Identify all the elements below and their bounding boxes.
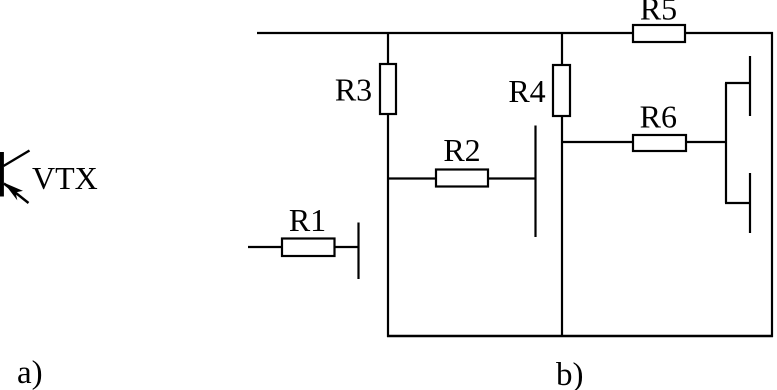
resistor R3 bbox=[380, 64, 396, 114]
wire R2 branch left lead bbox=[387, 177, 436, 179]
wire middle vertical upper segment bbox=[561, 32, 563, 65]
wire R6 branch right lead bbox=[686, 141, 726, 143]
svg-text:VTX: VTX bbox=[32, 160, 98, 196]
transistor gate plate at R2 bbox=[534, 126, 536, 238]
transistor drain plate right MOS bbox=[749, 56, 751, 116]
svg-text:a): a) bbox=[17, 355, 43, 390]
wire R1 branch right lead bbox=[335, 246, 359, 248]
svg-text:R3: R3 bbox=[335, 72, 372, 108]
svg-text:R2: R2 bbox=[443, 132, 480, 168]
wire R2 branch right lead bbox=[488, 177, 536, 179]
svg-text:R1: R1 bbox=[289, 202, 326, 238]
transistor top arm right MOS bbox=[725, 82, 750, 84]
wire left vertical upper segment bbox=[387, 32, 389, 64]
transistor bottom arm right MOS bbox=[725, 202, 750, 204]
transistor VTX bbox=[0, 151, 30, 204]
transistor gate bar right MOS bbox=[725, 83, 727, 203]
wire left vertical lower segment bbox=[387, 114, 389, 337]
resistor R6 bbox=[633, 135, 686, 151]
svg-text:R4: R4 bbox=[508, 73, 545, 109]
transistor gate plate at R1 bbox=[357, 223, 359, 280]
resistor R1 bbox=[282, 239, 335, 257]
svg-text:R6: R6 bbox=[640, 99, 677, 135]
wire R1 branch left lead bbox=[248, 246, 282, 248]
svg-text:R5: R5 bbox=[640, 0, 677, 27]
wire top rail right of R5 bbox=[685, 32, 773, 34]
wire right vertical bbox=[771, 32, 773, 337]
transistor source plate right MOS bbox=[749, 173, 751, 233]
resistor R4 bbox=[553, 65, 570, 116]
svg-text:b): b) bbox=[556, 357, 584, 390]
wire R6 branch left lead bbox=[562, 141, 633, 143]
wire top rail left of R5 bbox=[257, 32, 634, 34]
wire middle vertical lower segment bbox=[561, 116, 563, 337]
wire bottom rail bbox=[387, 335, 773, 337]
resistor R5 bbox=[633, 25, 685, 42]
resistor R2 bbox=[436, 170, 488, 187]
